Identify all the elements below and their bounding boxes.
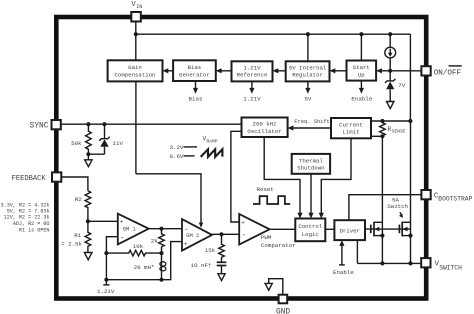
node M2 source to VSWITCH bbox=[408, 261, 412, 265]
svg-text:3.2V: 3.2V bbox=[170, 144, 184, 151]
svg-text:11V: 11V bbox=[113, 140, 124, 147]
svg-text:ON/OFF: ON/OFF bbox=[434, 69, 462, 77]
node 50k tap bbox=[86, 122, 90, 126]
IC outer boundary bbox=[56, 17, 426, 299]
arrow Bias Generator to Gain Compensation bbox=[163, 68, 174, 73]
wire VIN rail horizontal bbox=[136, 33, 411, 35]
svg-text:IN: IN bbox=[136, 4, 142, 10]
wire driver to VSWITCH rail bbox=[356, 240, 358, 263]
svg-text:Comparator: Comparator bbox=[261, 242, 296, 249]
svg-text:Regulator: Regulator bbox=[292, 72, 323, 79]
arrow Enable into driver bbox=[333, 240, 354, 276]
svg-text:1.21V: 1.21V bbox=[243, 96, 261, 103]
svg-text:Gain: Gain bbox=[128, 64, 142, 71]
svg-text:+: + bbox=[120, 218, 124, 225]
svg-text:1.21V: 1.21V bbox=[243, 64, 261, 71]
pin VIN bbox=[131, 1, 142, 22]
op-amp GM2 bbox=[182, 219, 212, 251]
label feedback divider table bbox=[1, 203, 50, 234]
block 260kHz Oscillator bbox=[242, 118, 288, 138]
svg-text:Compensation: Compensation bbox=[115, 72, 156, 79]
node M1 source to VSWITCH bbox=[380, 261, 384, 265]
block Gain Compensation bbox=[108, 60, 163, 81]
wire VIN rail corner down to RSENSE bbox=[409, 34, 411, 121]
node ON/OFF zener junction bbox=[388, 69, 392, 73]
svg-text:Bias: Bias bbox=[188, 64, 202, 71]
arrowhead into GM2 top bbox=[199, 223, 203, 229]
svg-text:10 nF†: 10 nF† bbox=[191, 262, 212, 269]
pin ON/OFF bbox=[421, 66, 461, 78]
node 5V-reg tap bbox=[306, 32, 310, 36]
wire GM1 minus input L bbox=[106, 237, 117, 280]
wire gain-comp feed down from VIN bbox=[135, 81, 137, 173]
resistor R2 bbox=[75, 191, 91, 222]
svg-text:0.6V: 0.6V bbox=[170, 153, 184, 160]
wire GM1 output bbox=[149, 228, 182, 230]
svg-text:Bias: Bias bbox=[189, 96, 203, 103]
svg-text:R2: R2 bbox=[75, 196, 82, 203]
wire control logic to driver bbox=[325, 228, 334, 230]
block 1.21V Reference bbox=[232, 61, 273, 81]
arrow reset into control logic bbox=[297, 213, 302, 219]
wire VIN rail vertical from pin bbox=[135, 22, 137, 61]
wire 5V-regulator supply bbox=[307, 34, 309, 61]
node inductor bottom bbox=[159, 278, 163, 282]
current source I bbox=[385, 34, 396, 81]
svg-text:+: + bbox=[241, 220, 245, 227]
wire current limit L-path bbox=[321, 138, 351, 215]
block Start Up bbox=[347, 61, 377, 81]
pin CBOOTSTRAP bbox=[421, 190, 472, 202]
wire startup supply bbox=[360, 34, 362, 60]
arrow 5V output bbox=[304, 81, 311, 102]
ground arrow below 7V zener bbox=[387, 102, 394, 109]
svg-text:GND: GND bbox=[276, 308, 290, 314]
transistor M2 (5A switch) bbox=[399, 222, 412, 238]
svg-text:ADJ, R2 = 0Ω: ADJ, R2 = 0Ω bbox=[13, 221, 50, 227]
arrow ON/OFF line into Start Up bbox=[376, 68, 421, 73]
svg-text:Control: Control bbox=[298, 223, 322, 230]
ground below R1 bbox=[84, 253, 92, 260]
svg-text:1.21V: 1.21V bbox=[97, 288, 115, 295]
inductor 20mH bbox=[134, 253, 166, 280]
block Bias Generator bbox=[173, 60, 216, 81]
node 50k/zener bottom bbox=[86, 152, 90, 156]
block Control Logic bbox=[295, 219, 325, 242]
resistor RSENSE bbox=[371, 119, 413, 138]
resistor 50k bbox=[71, 124, 91, 154]
svg-text:Generator: Generator bbox=[179, 72, 210, 79]
arrow Enable output bbox=[351, 81, 372, 103]
wire GM2 output bbox=[212, 233, 239, 235]
svg-text:Start: Start bbox=[353, 64, 370, 71]
svg-text:260 kHz: 260 kHz bbox=[253, 121, 277, 128]
wire drain rail left (RSENSE to M1) bbox=[381, 136, 383, 263]
block 5V Internal Regulator bbox=[286, 61, 330, 81]
svg-text:BOOTSTRAP: BOOTSTRAP bbox=[438, 195, 472, 202]
svg-text:-: - bbox=[120, 235, 124, 243]
label Reset pulse annotation bbox=[253, 186, 290, 204]
resistor 15k bbox=[205, 234, 225, 262]
pin GND bbox=[276, 295, 290, 314]
svg-text:10k: 10k bbox=[133, 243, 144, 250]
arrow current limit into control logic bbox=[319, 213, 324, 219]
wire SYNC line to oscillator bbox=[61, 123, 242, 125]
block Current Limit bbox=[331, 118, 371, 138]
svg-text:Enable: Enable bbox=[351, 96, 372, 103]
svg-text:R1 is OPEN: R1 is OPEN bbox=[19, 228, 50, 234]
wire FEEDBACK to R2 bbox=[62, 177, 88, 191]
arrow 1.21V output bbox=[243, 81, 261, 102]
svg-text:15k: 15k bbox=[205, 247, 216, 254]
capacitor 10nF bbox=[191, 262, 227, 274]
svg-text:5V, R2 = 7.83k: 5V, R2 = 7.83k bbox=[7, 209, 50, 215]
wire PWM output to control logic bbox=[270, 228, 296, 230]
arrow Reference to Bias Generator bbox=[216, 68, 232, 73]
node GM1 out / 2k bbox=[159, 227, 163, 231]
svg-text:FEEDBACK: FEEDBACK bbox=[12, 175, 47, 183]
svg-text:Oscillator: Oscillator bbox=[247, 128, 281, 135]
node 11V zener tap bbox=[102, 122, 106, 126]
resistor 2k bbox=[151, 229, 164, 253]
svg-text:Enable: Enable bbox=[333, 269, 354, 276]
ground below 50k bbox=[85, 154, 92, 166]
wire oscillator reset L-path bbox=[264, 137, 300, 215]
arrow Freq Shift into oscillator bbox=[288, 119, 331, 130]
svg-text:-: - bbox=[242, 232, 246, 240]
svg-text:-: - bbox=[184, 226, 188, 234]
pin FEEDBACK bbox=[12, 172, 62, 182]
pin SYNC bbox=[30, 120, 61, 131]
svg-text:50k: 50k bbox=[71, 140, 82, 147]
arrow thermal into control logic bbox=[308, 213, 313, 219]
svg-text:5V Internal: 5V Internal bbox=[289, 64, 327, 71]
zener diode 11V bbox=[88, 124, 123, 154]
node 1.21V terminal bbox=[97, 280, 115, 295]
svg-text:SWITCH: SWITCH bbox=[439, 265, 462, 272]
node startup tap bbox=[359, 32, 363, 36]
op-amp PWM comparator bbox=[239, 214, 295, 249]
svg-text:20 mH*: 20 mH* bbox=[134, 264, 155, 271]
label 5A Switch with pointer bbox=[387, 197, 408, 218]
wire gain-comp to GM2 L-path bbox=[136, 174, 201, 224]
svg-text:PWM: PWM bbox=[261, 234, 272, 241]
arrow Bias output bbox=[189, 81, 203, 103]
svg-text:5V: 5V bbox=[304, 96, 311, 103]
svg-text:Thermal: Thermal bbox=[299, 157, 323, 164]
svg-text:Reset: Reset bbox=[257, 186, 274, 193]
ground below 10nF bbox=[218, 274, 225, 281]
svg-text:Switch: Switch bbox=[387, 203, 408, 210]
arrow 5V Regulator to Reference bbox=[273, 68, 286, 73]
svg-text:Up: Up bbox=[358, 72, 365, 79]
svg-text:= 2.5k: = 2.5k bbox=[61, 240, 82, 247]
op-amp GM1 bbox=[118, 214, 149, 245]
svg-text:GM 1: GM 1 bbox=[123, 227, 136, 233]
block Driver bbox=[334, 220, 365, 240]
zener diode 7V bbox=[385, 79, 406, 102]
node feedback divider bbox=[86, 219, 90, 223]
resistor R1 bbox=[61, 221, 91, 252]
node current-source tap bbox=[388, 32, 392, 36]
svg-text:+: + bbox=[184, 241, 188, 248]
node 10k left bbox=[104, 251, 108, 255]
resistor 10k bbox=[106, 243, 161, 256]
svg-text:Reference: Reference bbox=[237, 72, 268, 79]
svg-text:7V: 7V bbox=[398, 82, 405, 89]
wire thermal shutdown down bbox=[310, 174, 312, 216]
ground flag at GND pin bbox=[265, 279, 283, 295]
svg-text:Shutdown: Shutdown bbox=[297, 165, 324, 172]
wire drain rail right (VIN to M2) bbox=[410, 121, 412, 263]
wire ramp into PWM plus bbox=[231, 131, 242, 222]
block Thermal Shutdown bbox=[292, 154, 330, 174]
svg-text:Freq. Shift: Freq. Shift bbox=[294, 119, 330, 125]
wire divider to GM1+ bbox=[88, 220, 118, 222]
svg-text:SENSE: SENSE bbox=[392, 129, 406, 135]
node GM2 out / 15k bbox=[219, 232, 223, 236]
svg-text:Limit: Limit bbox=[342, 129, 359, 136]
wire VSWITCH horizontal bbox=[357, 262, 421, 264]
arrow Start Up to 5V Regulator bbox=[330, 68, 347, 73]
svg-text:Current: Current bbox=[339, 121, 363, 128]
transistor M1 (sense FET) bbox=[365, 222, 411, 238]
svg-text:2k: 2k bbox=[151, 238, 158, 245]
node 1.21V rail left bbox=[104, 278, 108, 282]
node VIN junction bbox=[134, 32, 138, 36]
svg-text:RAMP: RAMP bbox=[207, 138, 218, 144]
svg-text:12V, R2 = 22.3k: 12V, R2 = 22.3k bbox=[4, 215, 50, 221]
svg-text:R1: R1 bbox=[74, 232, 81, 239]
node 2k/10k/inductor bbox=[159, 251, 163, 255]
svg-text:SYNC: SYNC bbox=[30, 123, 49, 131]
wire bootstrap line to driver bbox=[349, 195, 422, 221]
svg-text:Logic: Logic bbox=[302, 231, 319, 238]
pin VSWITCH bbox=[421, 258, 462, 271]
svg-text:Driver: Driver bbox=[339, 228, 359, 235]
label Vramp sawtooth annotation bbox=[170, 136, 223, 161]
wire 1.21V bottom rail to GM2+ bbox=[106, 242, 182, 280]
